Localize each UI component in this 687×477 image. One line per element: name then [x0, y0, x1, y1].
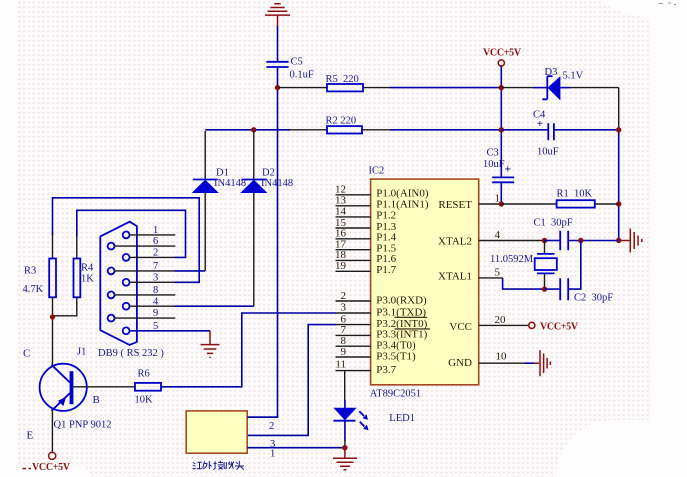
svg-text:+: + [537, 118, 543, 130]
svg-text:5: 5 [495, 266, 501, 278]
svg-text:IN4148: IN4148 [214, 178, 246, 189]
svg-text:4: 4 [495, 229, 501, 241]
svg-text:VCC: VCC [449, 321, 472, 333]
wire C5 to IR pin2 (long vertical) [247, 67, 277, 417]
svg-text:LED1: LED1 [389, 413, 415, 424]
svg-text:RESET: RESET [438, 199, 472, 211]
svg-text:B: B [93, 394, 100, 406]
svg-text:Q1 PNP 9012: Q1 PNP 9012 [54, 420, 112, 431]
svg-text:GND: GND [448, 357, 472, 369]
resistor R6 [135, 369, 162, 406]
svg-text:11.0592M: 11.0592M [490, 254, 534, 265]
svg-text:2: 2 [269, 421, 274, 432]
svg-text:IN4148: IN4148 [261, 178, 293, 189]
svg-text:D3: D3 [545, 67, 558, 78]
svg-text:1: 1 [153, 225, 158, 236]
svg-text:3: 3 [341, 301, 347, 313]
junction R3/R4 [50, 314, 55, 319]
junction VCC/R5 row [499, 85, 504, 90]
svg-text:P1.7: P1.7 [376, 264, 396, 276]
scan specks [659, 3, 676, 5]
svg-text:R3: R3 [24, 266, 36, 277]
ground (LED1) [333, 448, 357, 470]
junction crystal/C2 [542, 286, 547, 291]
svg-text:C2 30pF: C2 30pF [574, 293, 613, 304]
wire pin7 to D1 [175, 270, 205, 272]
wire P3.2 INT0 to IR pin 3 [247, 325, 335, 436]
DB9 pin 1 [123, 225, 176, 238]
svg-text:R5 220: R5 220 [326, 74, 359, 85]
DB9 pin 7 [108, 261, 176, 274]
junction XTAL2/crystal [542, 238, 547, 243]
DB9 pin 5 [123, 321, 210, 334]
svg-text:1: 1 [270, 449, 275, 460]
LED LED1 [333, 400, 415, 448]
DB9 pin 6 [108, 236, 176, 249]
svg-text:D2: D2 [262, 168, 275, 179]
svg-text:P3.7: P3.7 [376, 364, 396, 376]
junction LED1/IR pin1 [342, 445, 347, 450]
svg-text:D1: D1 [216, 168, 229, 179]
capacitor C4 [501, 110, 618, 158]
junction VCC/R2 row [499, 127, 504, 132]
IR pin 3 [270, 439, 275, 450]
node VCC+5V (Q1 emitter) [23, 452, 71, 473]
svg-text:P3.0(RXD): P3.0(RXD) [376, 294, 427, 306]
svg-text:IC2: IC2 [369, 166, 385, 177]
capacitor C2 [545, 241, 614, 304]
wire pin4 to D2 [175, 305, 254, 307]
DB9 pin 3 [123, 272, 176, 285]
pin 8 P3.4(T0) [336, 335, 417, 352]
svg-text:VCC+5V: VCC+5V [32, 462, 71, 473]
resistor R4 [74, 235, 95, 297]
junction right/R1 [616, 201, 621, 206]
capacitor C3 [483, 148, 514, 205]
ground (DB9 pin 5) [201, 331, 220, 358]
wire R2 row left [205, 129, 290, 131]
svg-text:R2 220: R2 220 [326, 116, 357, 127]
pin 14 P1.2 [335, 206, 396, 222]
resistor R1 [501, 189, 618, 208]
svg-text:R1 10K: R1 10K [557, 189, 593, 200]
svg-text:4: 4 [153, 296, 159, 307]
svg-text:9: 9 [153, 308, 158, 319]
wire pin3 to R3 top [53, 198, 200, 282]
junction right/XTAL2 [616, 238, 621, 243]
svg-text:8: 8 [153, 285, 158, 296]
pin 5 XTAL1 [438, 266, 503, 282]
wire right vertical (D3/C4/R1 to gnd) [618, 88, 620, 130]
pin 15 P1.3 [335, 217, 397, 233]
svg-text:2: 2 [153, 248, 158, 259]
pin 20 VCC [449, 314, 528, 333]
pin 2 P3.0(RXD) [336, 290, 428, 307]
label 红外接收头 (IR receiver) [193, 461, 244, 470]
crystal Y1 11.0592M [490, 241, 557, 290]
svg-text:10: 10 [496, 351, 508, 363]
pin 9 P3.5(T1) [336, 346, 417, 363]
wire C5 top [277, 26, 279, 61]
pin 19 P1.7 [335, 260, 397, 276]
svg-text:1K: 1K [81, 274, 94, 285]
wire pin2 to R4 top [77, 210, 186, 257]
svg-text:XTAL1: XTAL1 [438, 271, 472, 283]
svg-text:10uF: 10uF [483, 159, 505, 170]
connector J1 DB9 body [77, 222, 164, 359]
ground (pin 10) [534, 350, 550, 376]
pin 13 P1.1(AIN1) [335, 195, 429, 211]
junction D2 top [251, 127, 256, 132]
svg-text:3: 3 [153, 272, 158, 283]
svg-text:E: E [27, 430, 34, 442]
svg-text:P3.1(TXD): P3.1(TXD) [376, 306, 426, 318]
resistor R5 [326, 74, 364, 91]
svg-text:J1: J1 [77, 347, 86, 358]
pin 11 P3.7 [335, 358, 396, 376]
svg-text:C1 30pF: C1 30pF [534, 218, 573, 229]
IR receiver module [186, 411, 247, 453]
svg-text:R6: R6 [138, 369, 150, 380]
wire XTAL1 to C2 [503, 278, 545, 289]
capacitor C5 [266, 57, 313, 81]
ground (XTAL2 net) [619, 229, 642, 253]
DB9 pin 2 [123, 248, 176, 261]
diode D2 [241, 131, 293, 306]
pin 1 RESET [438, 193, 501, 212]
resistor R3 [23, 233, 57, 297]
svg-text:XTAL2: XTAL2 [438, 236, 472, 248]
node VCC+5V (pin 20) [529, 322, 579, 333]
svg-text:P3.5(T1): P3.5(T1) [376, 350, 416, 362]
transistor Q1 [27, 362, 136, 453]
svg-text:0.1uF: 0.1uF [290, 70, 314, 81]
node VCC+5V (top) [483, 48, 522, 67]
DB9 pin 4 [123, 296, 176, 309]
junction C1/C2 riser [578, 238, 583, 243]
svg-text:7: 7 [153, 261, 158, 272]
pin 4 XTAL2 [438, 229, 544, 248]
junction C5/R5 [275, 85, 280, 90]
svg-text:10K: 10K [135, 395, 154, 406]
diode D1 [193, 131, 246, 271]
svg-text:VCC+5V: VCC+5V [540, 322, 579, 333]
DB9 pin 9 [108, 308, 176, 321]
svg-text:C: C [23, 348, 30, 360]
pin 12 P1.0(AIN0) [335, 184, 429, 200]
pin 7 P3.3(INT1) [336, 324, 428, 341]
IR pin 1 [247, 448, 345, 460]
wire R2 row right [362, 129, 390, 131]
wire P3.7 to LED1 [344, 371, 346, 401]
svg-text:C5: C5 [291, 57, 303, 68]
ground (top, above C5) [265, 4, 290, 27]
svg-text:C3: C3 [487, 148, 499, 159]
pin 6 P3.2(INT0) [336, 313, 431, 330]
svg-text:R4: R4 [81, 263, 94, 274]
pin 17 P1.5 [335, 239, 397, 255]
svg-text:DB9 ( RS 232 ): DB9 ( RS 232 ) [98, 348, 164, 359]
svg-text:11: 11 [335, 358, 346, 370]
wire VCC to C3 [500, 66, 502, 177]
svg-text:5.1V: 5.1V [563, 71, 584, 82]
svg-text:9: 9 [341, 346, 347, 358]
resistor R2 [326, 116, 363, 134]
pin 18 P1.6 [335, 249, 397, 265]
capacitor C1 [534, 218, 619, 251]
pin 10 GND [448, 351, 534, 370]
zener diode D3 [501, 67, 618, 100]
pin 16 P1.4 [335, 228, 397, 244]
svg-text:6: 6 [153, 236, 158, 247]
svg-text:+: + [505, 164, 512, 176]
svg-text:AT89C2051: AT89C2051 [370, 389, 421, 400]
pin 3 P3.1(TXD) [336, 301, 428, 318]
svg-text:5: 5 [153, 321, 158, 332]
wire R5 row [278, 87, 391, 89]
wire R3/R4 bottoms to Q1 collector [53, 297, 77, 362]
svg-text:10uF: 10uF [537, 147, 559, 158]
svg-text:2: 2 [341, 290, 347, 302]
junction RESET/C3 [499, 201, 504, 206]
svg-text:4.7K: 4.7K [23, 284, 44, 295]
svg-text:VCC+5V: VCC+5V [483, 48, 522, 59]
wire R6 to P3.1 TXD [161, 313, 336, 387]
DB9 pin 8 [108, 285, 176, 298]
svg-text:20: 20 [495, 314, 507, 326]
IR pin 2 [247, 417, 277, 432]
junction right/C4 [616, 127, 621, 132]
svg-text:19: 19 [335, 260, 347, 272]
IC U1 IC2 AT89C2051 body [369, 166, 479, 400]
white margins / scan artifacts [0, 0, 17, 477]
